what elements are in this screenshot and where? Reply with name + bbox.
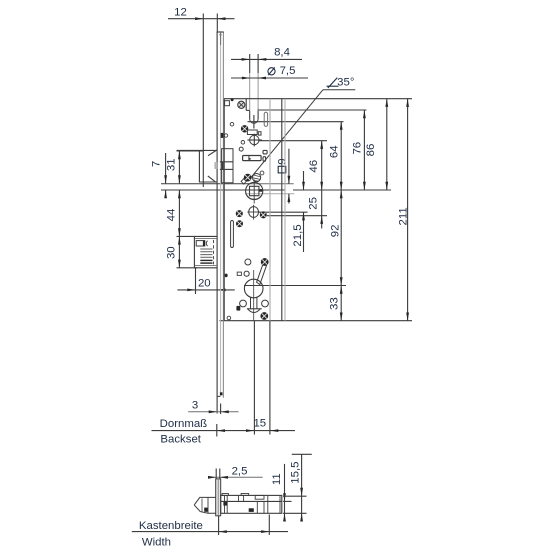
screw at 35 deg leader <box>244 174 252 182</box>
dimension 31 label <box>165 158 177 171</box>
dimension 25 line <box>320 190 323 229</box>
section dimension 11 line <box>283 464 286 522</box>
backset dimension line <box>152 429 296 432</box>
svg-text:20: 20 <box>198 278 211 290</box>
screw bottom <box>260 312 268 320</box>
svg-text:Dornmaß: Dornmaß <box>160 418 208 430</box>
dimension 7 label <box>151 161 163 167</box>
svg-text:92: 92 <box>329 225 341 238</box>
hatched segment <box>253 174 261 182</box>
section dimension 11 label <box>271 473 283 485</box>
svg-text:25: 25 <box>307 197 319 210</box>
section faceplate bar <box>216 479 221 516</box>
svg-text:15: 15 <box>253 417 266 429</box>
cylinder cam lever <box>257 259 268 285</box>
svg-text:76: 76 <box>352 142 364 155</box>
extension line latch front x=203 <box>202 14 204 188</box>
case bottom line and extension <box>220 320 413 322</box>
gray line latch axis top <box>161 183 294 185</box>
svg-text:21,5: 21,5 <box>292 224 304 246</box>
square 9 dimension line <box>288 149 291 204</box>
euro cylinder profile <box>244 270 263 321</box>
dimension 46 line <box>320 141 323 190</box>
svg-text:31: 31 <box>165 158 177 171</box>
dimension 7 line <box>164 153 167 198</box>
svg-text:Kastenbreite: Kastenbreite <box>139 520 203 532</box>
slot right of channel <box>264 112 267 126</box>
section extension inner plate <box>283 500 292 502</box>
screw left lower <box>236 220 243 227</box>
hookbox stripes <box>200 249 212 263</box>
diamond piece <box>241 179 246 184</box>
svg-text:64: 64 <box>328 145 340 158</box>
dimension 30 line <box>178 236 181 267</box>
faceplate top edge <box>217 32 224 45</box>
section extension case bottom <box>283 512 307 514</box>
faceplate lip line <box>222 32 224 398</box>
faceplate dark slot <box>221 133 224 138</box>
dimension 86 line <box>385 99 388 190</box>
svg-text:30: 30 <box>165 246 177 259</box>
svg-text:33: 33 <box>328 297 340 310</box>
svg-text:44: 44 <box>165 209 177 222</box>
bar piece <box>247 130 261 135</box>
svg-text:2,5: 2,5 <box>232 466 248 478</box>
hookbox outline <box>194 236 217 267</box>
label 35 deg <box>327 76 355 88</box>
small circle a <box>230 122 234 126</box>
case inner plate line <box>269 99 271 321</box>
dimension 92 label <box>329 225 341 238</box>
latch front face <box>198 150 200 182</box>
extension line hookbox left bottom <box>195 268 197 294</box>
section tick right <box>268 515 270 536</box>
dimension 20 label <box>198 278 211 290</box>
extension tick 3 right <box>220 404 222 415</box>
screw left upper <box>236 210 243 217</box>
extension line faceplate front top <box>216 14 218 33</box>
extension line y141 <box>259 140 327 142</box>
latch nose slot <box>214 162 233 170</box>
section kastenbreite label <box>139 520 203 532</box>
section case body <box>221 495 282 513</box>
dimension 7,5 label <box>268 65 296 77</box>
screw dark mid <box>241 125 248 132</box>
follower hub <box>246 180 263 204</box>
dimension 33 line <box>340 286 343 321</box>
screw top <box>238 101 245 108</box>
dimension 25 label <box>307 197 319 210</box>
dimension 8,4 line <box>231 58 302 61</box>
extension line y122 <box>248 121 344 123</box>
hookbox inner rect <box>196 241 207 246</box>
pin 7,5 cross <box>253 115 255 129</box>
section dimension 2,5 label <box>232 466 248 478</box>
dimension 86 label <box>365 144 377 157</box>
extension line latch top <box>177 150 203 152</box>
slide bar <box>243 156 262 161</box>
case right edge <box>281 99 283 321</box>
dimension 33 label <box>328 297 340 310</box>
screw right of pin <box>260 211 267 218</box>
dimension 92 line <box>340 190 343 286</box>
dark square mark <box>236 306 240 311</box>
extension lines 8,4 ticks <box>250 54 258 111</box>
small circle e <box>260 171 264 175</box>
section dimension 15,5 line <box>300 454 303 521</box>
backset tick faceplate <box>216 424 218 437</box>
svg-text:12: 12 <box>174 6 187 18</box>
case top line and extension <box>224 98 412 100</box>
svg-text:15,5: 15,5 <box>290 462 302 484</box>
extension line y215.7 <box>267 215 327 217</box>
svg-text:Backset: Backset <box>160 434 201 446</box>
small circle g <box>244 271 249 276</box>
dimension 3 label <box>192 400 198 412</box>
label Dornmass <box>160 418 208 430</box>
circle beside throat right <box>262 300 269 307</box>
dimension 44 label <box>165 209 177 222</box>
corner square mark <box>225 98 234 106</box>
latch top edge <box>177 149 218 151</box>
case left edge <box>223 99 225 321</box>
small circle c <box>241 141 245 145</box>
section case details <box>222 494 280 514</box>
svg-text:35°: 35° <box>337 76 354 88</box>
svg-text:11: 11 <box>271 473 283 485</box>
reference line latch axis <box>161 189 391 191</box>
extension line y212 <box>259 211 308 213</box>
svg-text:9: 9 <box>276 158 288 164</box>
latch bevel top <box>208 150 217 156</box>
latch bottom edge <box>199 181 217 183</box>
faceplate bottom end <box>217 392 222 396</box>
dimension 64 line <box>340 122 343 191</box>
leader line 35 deg <box>249 90 356 181</box>
svg-text:8,4: 8,4 <box>274 47 290 59</box>
section latch nose <box>194 497 216 513</box>
extension line 15 right <box>269 321 271 435</box>
svg-text:46: 46 <box>308 160 320 173</box>
extension line cylinder axis lower <box>253 321 255 435</box>
section 15,5 top tick <box>292 453 312 455</box>
extension line y110 <box>258 109 367 111</box>
faceplate front edge <box>216 32 218 414</box>
dimension 20 line <box>177 289 234 292</box>
gray line below axis <box>245 193 294 195</box>
section 2,5 ticks <box>216 469 220 481</box>
dimension 64 label <box>328 145 340 158</box>
hookbox dashed line <box>213 240 215 265</box>
section width label <box>142 536 171 548</box>
dimension 46 label <box>308 160 320 173</box>
pin channel <box>246 99 258 124</box>
case edge dark slot <box>225 274 228 278</box>
dimension 15 label <box>253 417 266 429</box>
circle beside throat left <box>240 300 247 307</box>
svg-text:3: 3 <box>192 400 198 412</box>
dimension 3 line <box>188 410 238 413</box>
svg-text:7: 7 <box>151 161 163 167</box>
label square 9 <box>276 158 288 172</box>
section extension case top <box>283 495 307 497</box>
case inner gray line right <box>284 99 286 321</box>
section kastenbreite line <box>132 530 288 533</box>
extension line hookbox top <box>177 235 195 237</box>
section dimension 15,5 label <box>290 462 302 484</box>
small rect i <box>263 150 267 154</box>
section dimension 2,5 line <box>208 476 263 479</box>
dimension 211 line <box>406 99 409 321</box>
dimension 12 label <box>174 6 187 18</box>
small rect j <box>263 157 266 162</box>
pin lower cross <box>247 205 259 220</box>
small circle f <box>245 259 251 265</box>
extension line cylinder axis y285.5 <box>244 285 346 287</box>
narrow slot <box>231 221 234 248</box>
svg-text:86: 86 <box>365 144 377 157</box>
dimension 7,5 line <box>231 77 308 80</box>
dimension 44 line <box>178 190 181 236</box>
dimension 31 line <box>178 151 181 183</box>
label Backset <box>160 434 201 446</box>
dimension 21,5 line <box>302 171 305 252</box>
latch bevel bottom <box>208 176 215 182</box>
screw cam <box>261 258 269 266</box>
dimension 76 line <box>363 110 366 190</box>
svg-text:7,5: 7,5 <box>280 65 296 77</box>
section tick left <box>218 516 220 535</box>
small rect h <box>237 272 241 275</box>
faceplate inner line <box>220 32 222 396</box>
dimension 211 label <box>398 207 410 225</box>
dimension 8,4 label <box>274 47 290 59</box>
dimension 30 label <box>165 246 177 259</box>
latch body <box>222 149 233 183</box>
extension line hookbox bottom <box>177 267 198 269</box>
small circle d <box>239 147 243 151</box>
tiny circle bottom <box>227 316 231 320</box>
dimension 21,5 label <box>292 224 304 246</box>
pin 2 cross circle <box>247 134 262 147</box>
small circle b <box>224 134 227 137</box>
dimension 76 label <box>352 142 364 155</box>
svg-text:Width: Width <box>142 536 171 548</box>
dimension 12 line <box>168 17 235 20</box>
